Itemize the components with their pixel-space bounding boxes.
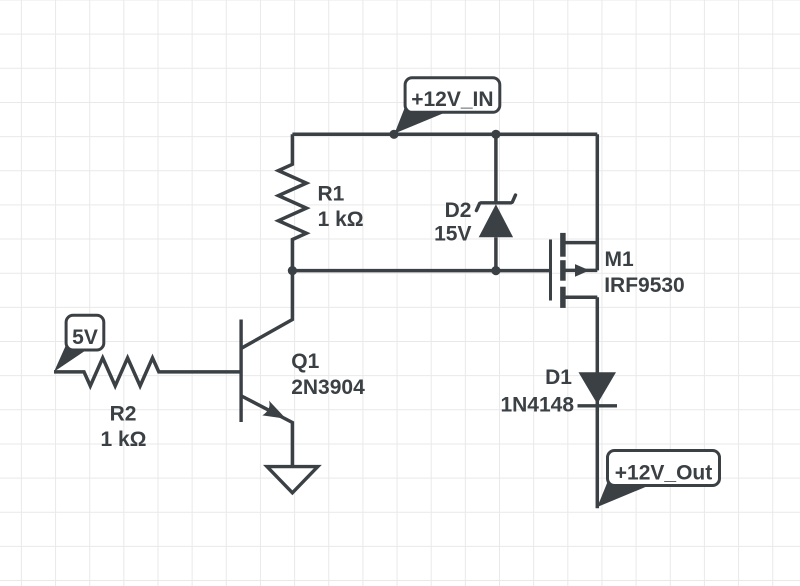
svg-text:R2: R2 [110,403,137,426]
svg-text:R1: R1 [318,182,345,205]
svg-text:5V: 5V [72,326,98,349]
svg-text:D2: D2 [445,199,472,222]
svg-text:+12V_IN: +12V_IN [411,88,493,111]
svg-text:M1: M1 [605,248,634,271]
svg-text:IRF9530: IRF9530 [604,274,685,297]
svg-text:+12V_Out: +12V_Out [615,462,712,485]
svg-text:1 kΩ: 1 kΩ [318,208,364,231]
svg-text:1 kΩ: 1 kΩ [100,428,146,451]
svg-text:Q1: Q1 [291,350,319,373]
svg-text:15V: 15V [434,223,471,246]
svg-text:2N3904: 2N3904 [291,376,365,399]
svg-text:D1: D1 [545,366,572,389]
svg-text:1N4148: 1N4148 [500,393,574,416]
